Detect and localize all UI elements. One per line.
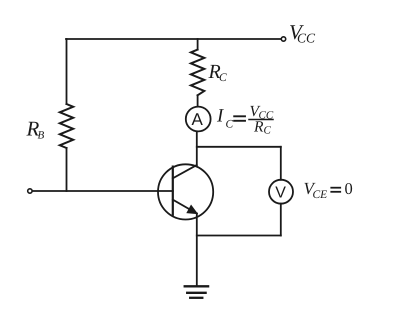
label RC (208, 61, 228, 84)
wire node to right (197, 146, 281, 148)
wire collector (196, 132, 198, 165)
voltmeter U2 (269, 180, 293, 204)
svg-text:CC: CC (297, 31, 316, 46)
fraction bar (249, 119, 273, 121)
svg-text:CE: CE (313, 189, 328, 201)
label IC formula (216, 103, 274, 137)
wire voltmeter top (280, 147, 282, 180)
label RB (26, 117, 45, 142)
svg-text:C: C (226, 119, 234, 131)
wire bottom (197, 235, 281, 237)
wire RC bottom (197, 95, 199, 106)
wire top rail (66, 38, 281, 40)
terminal VCC (281, 37, 285, 41)
ground (185, 286, 208, 298)
wire base (33, 190, 173, 192)
wire voltmeter bottom (280, 204, 282, 236)
svg-text:C: C (264, 125, 272, 137)
svg-text:A: A (192, 110, 204, 129)
svg-text:B: B (38, 130, 45, 142)
wire RC top (197, 39, 199, 50)
label VCC (289, 20, 316, 46)
svg-text:C: C (219, 72, 227, 84)
ammeter U1 (186, 107, 211, 132)
equals sign (234, 116, 245, 121)
wire left vertical upper (66, 39, 68, 104)
svg-text:R: R (253, 119, 264, 136)
wire left vertical lower (66, 148, 68, 191)
wire emitter (196, 213, 198, 286)
terminal input (28, 189, 32, 193)
resistor RB (60, 104, 73, 148)
svg-text:V: V (275, 185, 286, 202)
svg-text:0: 0 (345, 179, 353, 198)
label VCE (304, 179, 353, 201)
svg-text:I: I (216, 106, 225, 127)
resistor RC (191, 50, 204, 96)
transistor Q1 (158, 164, 213, 219)
equals sign VCE (331, 188, 340, 192)
